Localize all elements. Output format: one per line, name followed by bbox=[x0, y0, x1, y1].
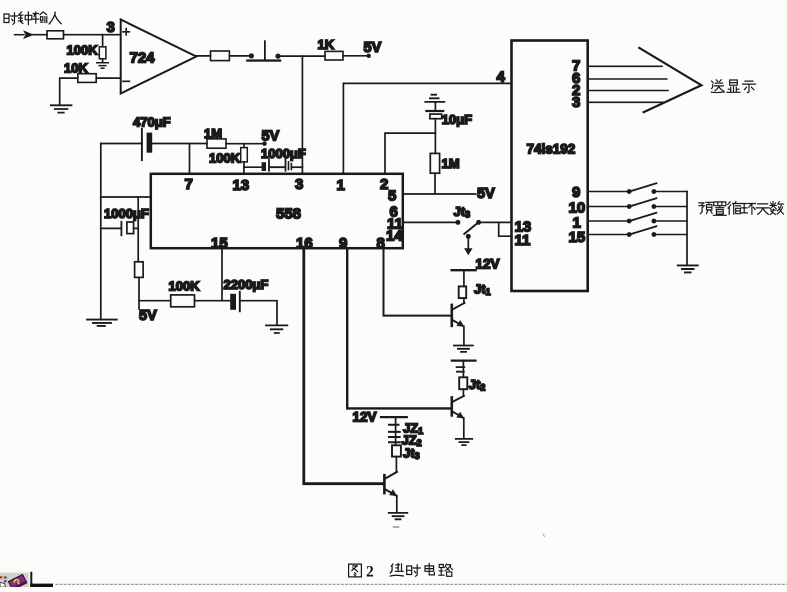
pin8 wire to Jt1 base bbox=[384, 248, 451, 315]
12V rail bar (Jt2) bbox=[452, 359, 476, 361]
resistor R-in bbox=[47, 31, 64, 39]
ground (preset bus) bbox=[678, 265, 698, 272]
arrow to display bbox=[639, 48, 701, 112]
ground (under 100K) bbox=[97, 63, 109, 68]
ground (Q3) bbox=[389, 513, 408, 519]
pin7 wire bbox=[189, 144, 191, 174]
svg-text:100K: 100K bbox=[169, 279, 201, 294]
output series resistor bbox=[211, 51, 230, 61]
svg-text:13: 13 bbox=[233, 177, 250, 194]
transistor Q2 bbox=[450, 397, 453, 415]
wire 558 left (pin a) bbox=[101, 196, 151, 198]
label 送显示 bbox=[711, 80, 755, 93]
display bus wires bbox=[588, 66, 668, 102]
svg-text:3: 3 bbox=[295, 176, 303, 193]
wire 470uF to 1M bbox=[152, 143, 207, 145]
wire to pins 13/11 bbox=[481, 222, 511, 236]
svg-text:100K: 100K bbox=[67, 43, 99, 58]
svg-text:724: 724 bbox=[130, 50, 156, 67]
pin13 wire bbox=[243, 167, 245, 174]
resistor 1M (10uF branch) bbox=[430, 153, 439, 173]
pin2 wire bbox=[385, 133, 435, 174]
wire left rail to 470uF bbox=[101, 143, 142, 145]
relay JZ1 bbox=[389, 425, 400, 432]
svg-text:12V: 12V bbox=[353, 410, 377, 425]
bottom dotted rule bbox=[56, 583, 787, 585]
ground (Q1) bbox=[454, 346, 473, 352]
node 5V bbox=[262, 142, 266, 146]
bus to ground bbox=[686, 192, 688, 265]
svg-text:470μF: 470μF bbox=[133, 115, 171, 130]
wire bbox=[281, 55, 325, 57]
svg-text:3: 3 bbox=[107, 19, 115, 36]
taskbar help icon bbox=[0, 572, 32, 590]
svg-text:4: 4 bbox=[497, 69, 506, 86]
transistor Q1 bbox=[450, 305, 453, 326]
svg-text:3: 3 bbox=[572, 94, 580, 111]
caption 图 2 延时电路 bbox=[349, 564, 453, 581]
svg-text:7: 7 bbox=[185, 176, 193, 193]
IC 558 bbox=[151, 174, 403, 248]
svg-text:5V: 5V bbox=[364, 40, 382, 56]
12V rail bar (Jt1) bbox=[452, 269, 476, 271]
svg-text:1K: 1K bbox=[318, 37, 335, 52]
relay JZ2 bbox=[389, 437, 400, 442]
pin1 wire to 74ls192 pin4 bbox=[343, 83, 511, 173]
resistor (left vertical) bbox=[135, 262, 144, 278]
svg-text:15: 15 bbox=[569, 229, 586, 246]
svg-text:14: 14 bbox=[386, 228, 403, 245]
svg-text:5V: 5V bbox=[262, 129, 280, 145]
ground (op-amp inverting) bbox=[51, 105, 72, 112]
svg-text:5: 5 bbox=[388, 188, 396, 205]
svg-text:12V: 12V bbox=[476, 257, 500, 272]
svg-text:10μF: 10μF bbox=[442, 112, 472, 127]
pushbutton S1 bbox=[249, 53, 254, 58]
svg-text:Jt3: Jt3 bbox=[454, 204, 471, 220]
svg-text:5V: 5V bbox=[139, 308, 157, 324]
label 预置循环天数 bbox=[699, 202, 784, 216]
12V rail bar (Jt3) bbox=[381, 416, 407, 418]
wire to 100K bbox=[139, 300, 171, 302]
relay coil Jt3 bbox=[392, 445, 401, 456]
svg-text:2: 2 bbox=[366, 564, 374, 581]
ground (10uF top, inverted) bbox=[425, 95, 444, 102]
input arrow bbox=[15, 34, 25, 36]
preset switch row 1 bbox=[588, 191, 627, 193]
resistor 100K vertical bbox=[102, 35, 104, 47]
label clock input 时钟输入 bbox=[4, 12, 61, 25]
pin15 wire bbox=[221, 248, 223, 301]
transistor Q3 bbox=[383, 475, 386, 493]
output wire bbox=[196, 55, 210, 57]
ground (2200uF) bbox=[266, 325, 287, 333]
preset switch row 3 bbox=[588, 220, 627, 222]
op-amp U1 724 bbox=[121, 20, 197, 94]
ground (Q2) bbox=[456, 439, 472, 445]
relay coil Jt1 bbox=[459, 286, 467, 298]
pin9 wire to Jt2 base bbox=[347, 248, 451, 408]
svg-text:Jt1: Jt1 bbox=[474, 282, 491, 298]
svg-text:1000μF: 1000μF bbox=[104, 206, 149, 221]
svg-text:1000μF: 1000μF bbox=[261, 146, 306, 161]
capacitor 10uF bbox=[434, 102, 436, 110]
svg-text:558: 558 bbox=[276, 206, 301, 223]
svg-text:15: 15 bbox=[211, 235, 228, 252]
wire bbox=[33, 34, 48, 36]
left rail bbox=[100, 144, 102, 319]
wire to op-amp + bbox=[64, 34, 121, 36]
ground (left rail) bbox=[87, 320, 117, 326]
svg-text:1: 1 bbox=[337, 177, 345, 194]
node 5V bbox=[367, 54, 371, 58]
stray mark bbox=[394, 526, 399, 528]
svg-text:11: 11 bbox=[515, 232, 531, 249]
preset switch row 2 bbox=[588, 206, 627, 208]
bottom black bar bbox=[30, 584, 54, 587]
svg-text:5V: 5V bbox=[477, 186, 495, 202]
svg-text:100K: 100K bbox=[209, 151, 241, 166]
svg-text:9: 9 bbox=[572, 184, 580, 201]
wire pin5 to 5V bbox=[403, 193, 476, 195]
svg-text:1M: 1M bbox=[442, 156, 460, 171]
svg-text:74ls192: 74ls192 bbox=[527, 142, 576, 157]
svg-text:2200μF: 2200μF bbox=[224, 277, 269, 292]
wire cap down to resistor bbox=[137, 228, 139, 261]
preset switch row 4 bbox=[588, 234, 627, 236]
IC 74ls192 bbox=[512, 41, 588, 292]
svg-text:Jt2: Jt2 bbox=[469, 377, 486, 393]
pin16 wire to Jt3 base bbox=[304, 248, 384, 484]
polarity ticks bbox=[457, 367, 465, 372]
wire node to pin3 of 558 bbox=[301, 56, 303, 174]
relay coil Jt2 bbox=[459, 377, 467, 389]
